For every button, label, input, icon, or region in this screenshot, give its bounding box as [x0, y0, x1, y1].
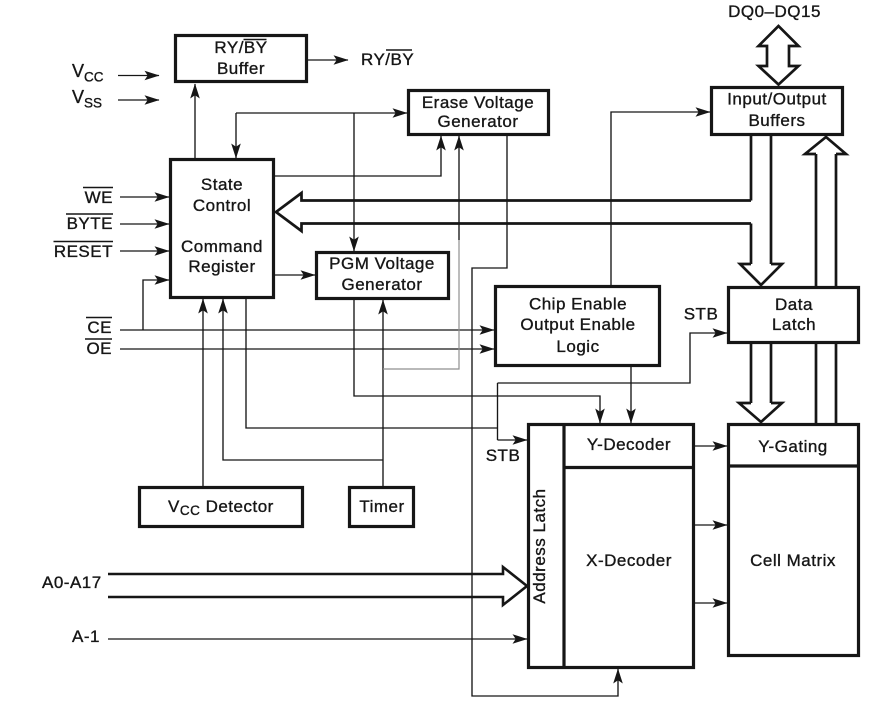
svg-text:Latch: Latch [772, 315, 816, 334]
svg-text:BYTE: BYTE [67, 214, 113, 233]
svg-text:Logic: Logic [556, 337, 599, 356]
box Timer [350, 488, 414, 527]
svg-text:Generator: Generator [437, 112, 518, 131]
svg-text:RY/BY: RY/BY [361, 50, 414, 69]
svg-text:Chip Enable: Chip Enable [529, 295, 627, 314]
wire CE branch up into State Control [143, 280, 169, 330]
box Data Latch [729, 288, 859, 343]
svg-text:Control: Control [193, 196, 251, 215]
svg-text:RY/BY: RY/BY [214, 38, 267, 57]
svg-text:CE: CE [87, 318, 112, 337]
wire STB to Address Latch [498, 439, 528, 441]
divider Y-Decoder / X-Decoder [564, 466, 693, 469]
svg-text:Register: Register [188, 257, 255, 276]
box VCC Detector [140, 488, 303, 527]
svg-text:STB: STB [684, 305, 719, 324]
svg-text:DQ0–DQ15: DQ0–DQ15 [728, 2, 821, 21]
svg-text:Timer: Timer [359, 497, 404, 516]
svg-text:Output Enable: Output Enable [520, 315, 635, 334]
wire RY/BY buffer output [308, 59, 348, 61]
bus wide arrow into State Control (from data bus) [276, 193, 751, 231]
wire VCC arrow [118, 75, 159, 77]
bus Y-Gating up through Data Latch [815, 343, 818, 423]
bus Data Latch up to I/O Buffers [815, 154, 818, 286]
svg-text:RESET: RESET [54, 242, 113, 261]
wire State Control down to STB node [246, 299, 498, 428]
wire State Control up to RY/BY buffer [194, 84, 196, 158]
svg-text:Command: Command [181, 237, 263, 256]
wire OE line to Chip Enable logic [120, 348, 494, 350]
svg-text:Y-Decoder: Y-Decoder [587, 435, 671, 454]
wire Chip Enable logic up to Input/Output Buffers [611, 112, 710, 285]
wire up into Erase generator bottom (from gray branch) [458, 136, 460, 240]
wire Chip Enable logic down to Y-Decoder [630, 367, 632, 423]
wire branch down into PGM Voltage Generator top [353, 113, 355, 251]
wire STB to Data Latch [498, 333, 728, 383]
wire branch into State Control bottom (from Timer line) [223, 299, 383, 460]
svg-text:Y-Gating: Y-Gating [758, 437, 828, 456]
box Chip Enable Output Enable Logic [496, 287, 660, 366]
wire VCC Detector up into State Control bottom [202, 299, 204, 486]
wire control node to Erase Voltage Generator [236, 112, 407, 114]
svg-text:A-1: A-1 [72, 627, 100, 646]
box RY/BY Buffer [176, 36, 307, 82]
svg-text:VCC: VCC [72, 61, 104, 85]
box Erase Voltage Generator [409, 91, 549, 135]
box PGM Voltage Generator [317, 253, 449, 299]
svg-text:WE: WE [85, 188, 113, 207]
svg-text:Data: Data [775, 295, 813, 314]
svg-text:Erase Voltage: Erase Voltage [422, 93, 534, 112]
wire Erase generator down long line [472, 136, 618, 696]
wire Y-Decoder to Y-Gating [695, 445, 727, 447]
box Address Latch / decoders outer [529, 425, 694, 668]
wire State Control to PGM generator left [275, 274, 315, 276]
box Y-Gating / Cell Matrix [729, 425, 859, 656]
svg-text:STB: STB [486, 446, 521, 465]
svg-text:OE: OE [86, 339, 112, 358]
wire X-Decoder to Cell Matrix lower [695, 602, 727, 604]
wire CE line to Chip Enable logic [120, 329, 494, 331]
divider Address Latch right edge [562, 424, 565, 667]
bus A0-A17 into Address Latch [108, 567, 527, 605]
svg-text:Cell Matrix: Cell Matrix [750, 551, 836, 570]
wire gray branch PGM line to Erase generator [383, 240, 459, 369]
bus I/O Buffers down to Data Latch [750, 136, 753, 201]
svg-text:X-Decoder: X-Decoder [586, 551, 672, 570]
bus Data Latch down to Y-Gating [750, 344, 753, 403]
svg-text:Input/Output: Input/Output [727, 90, 827, 109]
node STB vertical [497, 383, 499, 440]
wire A-1 into Address Latch [108, 638, 527, 640]
wire RESET into State Control [120, 250, 169, 252]
svg-text:A0-A17: A0-A17 [42, 573, 102, 592]
box Input/Output Buffers [712, 88, 843, 135]
svg-text:PGM Voltage: PGM Voltage [329, 254, 435, 273]
bus DQ0-DQ15 double arrow [759, 26, 799, 85]
svg-text:Address Latch: Address Latch [530, 488, 549, 603]
wire WE into State Control [120, 196, 169, 198]
wire X-Decoder to Cell Matrix upper [695, 524, 727, 526]
svg-text:VCC Detector: VCC Detector [168, 497, 274, 518]
svg-text:VSS: VSS [72, 87, 102, 111]
svg-text:Generator: Generator [341, 275, 422, 294]
svg-text:Buffer: Buffer [217, 59, 265, 78]
wire VSS arrow [118, 99, 159, 101]
wire State Control to Erase generator bottom [275, 136, 441, 176]
wire PGM generator down to Y-Decoder [354, 300, 600, 423]
wire control node down into State Control top [235, 113, 237, 158]
wire Timer line up into PGM generator bottom [382, 300, 384, 486]
box State Control / Command Register [171, 160, 274, 298]
svg-text:Buffers: Buffers [748, 111, 805, 130]
svg-text:State: State [201, 175, 243, 194]
wire BYTE into State Control [120, 223, 169, 225]
divider Y-Gating bottom [728, 464, 858, 467]
